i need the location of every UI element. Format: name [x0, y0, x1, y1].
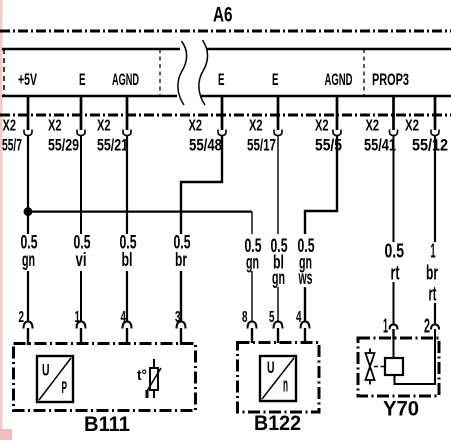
B111 pin socket 3 — [177, 322, 186, 329]
svg-text:55/41: 55/41 — [364, 136, 396, 155]
svg-text:55/21: 55/21 — [97, 136, 128, 155]
wire bl gn: X2 55/17 down to B122 pin 5 — [277, 136, 279, 322]
svg-text:1: 1 — [383, 316, 388, 338]
B122 rpm sensor symbol U/n — [260, 356, 296, 401]
svg-text:X2: X2 — [97, 118, 111, 135]
wire E to X2 — [221, 96, 224, 130]
svg-text:X2: X2 — [405, 118, 419, 135]
svg-text:rt: rt — [429, 284, 437, 306]
svg-text:3: 3 — [175, 309, 181, 326]
wire rt: X2 55/41 down to Y70 pin 1 — [393, 136, 395, 325]
svg-text:+5V: +5V — [18, 70, 37, 89]
Y70 valve symbol — [369, 349, 371, 354]
B122 pin socket 4 — [301, 322, 310, 329]
component B111 box — [14, 344, 196, 411]
svg-text:gn: gn — [272, 268, 285, 289]
connector socket 55/48 — [218, 130, 226, 136]
svg-text:55/48: 55/48 — [189, 136, 222, 155]
break mark right curve — [199, 40, 208, 105]
scan artifact: pink bottom-left patch — [0, 429, 12, 440]
svg-text:br: br — [426, 263, 438, 285]
svg-text:U: U — [42, 361, 50, 380]
Y70 solenoid coil — [385, 358, 403, 375]
svg-text:AGND: AGND — [112, 70, 139, 89]
white mask for wire labels — [16, 234, 40, 271]
connector X2 dash-dot line — [0, 114, 451, 117]
wire gn ws: X2 55/5 step down-left to B122 pin 4 — [305, 136, 337, 322]
connector socket 55/29 — [77, 130, 85, 136]
svg-text:8: 8 — [242, 309, 248, 326]
svg-text:gn: gn — [246, 253, 259, 274]
wire AGND to X2 — [336, 96, 339, 130]
connector socket 55/7 — [24, 130, 32, 136]
wire gn branch down to B122 pin 8 — [251, 212, 253, 321]
svg-text:P: P — [62, 378, 68, 397]
svg-text:5: 5 — [269, 309, 275, 326]
connector band bottom edge — [2, 95, 177, 97]
svg-text:vi: vi — [76, 250, 87, 271]
svg-text:AGND: AGND — [325, 70, 353, 89]
connector band top edge — [2, 48, 180, 50]
B122 pin socket 5 — [274, 322, 283, 329]
svg-text:B111: B111 — [84, 413, 130, 436]
svg-text:rt: rt — [391, 263, 400, 285]
B111 pin socket 1 — [77, 322, 86, 329]
wire bl: X2 55/21 down to B111 pin 4 — [126, 136, 128, 322]
svg-text:1: 1 — [431, 240, 436, 262]
component B122 box — [238, 343, 320, 413]
Y70 internal wire coil to pin2 — [395, 329, 436, 384]
band separator dashed — [363, 49, 365, 95]
Y70 pin socket 2 — [431, 325, 439, 330]
svg-text:gn: gn — [22, 250, 35, 271]
band left dashed border — [3, 49, 5, 96]
connector socket 55/5 — [333, 130, 341, 136]
wire gn: X2 55/7 down to B111 pin 2 — [27, 136, 29, 322]
component Y70 box — [358, 338, 439, 396]
wire branch +5V to B122 pin 8 — [28, 211, 252, 213]
B111 pressure sensor symbol U/P — [37, 356, 73, 402]
svg-text:X2: X2 — [315, 118, 329, 135]
connector socket 55/12 — [431, 130, 439, 136]
svg-text:bl: bl — [122, 250, 133, 271]
svg-text:X2: X2 — [366, 118, 380, 135]
svg-text:X2: X2 — [249, 118, 263, 135]
svg-text:55/12: 55/12 — [412, 136, 448, 155]
svg-text:Y70: Y70 — [383, 398, 419, 421]
wire to X2 55/12 — [434, 96, 437, 130]
svg-text:4: 4 — [296, 309, 302, 326]
wire E to X2 — [277, 96, 280, 130]
Y70 internal wire pin1 to coil — [393, 339, 395, 358]
svg-text:E: E — [79, 70, 86, 89]
svg-text:A6: A6 — [213, 4, 233, 27]
connector socket 55/17 — [274, 130, 282, 136]
svg-text:X2: X2 — [3, 118, 17, 135]
scan artifact: pink left edge — [0, 0, 3, 440]
break mark left curve — [178, 41, 187, 105]
B111 pin socket 4 — [123, 322, 132, 329]
svg-text:U: U — [267, 358, 275, 377]
Y70 pin socket 1 — [390, 325, 398, 330]
svg-text:br: br — [175, 250, 187, 271]
wire vi: X2 55/29 down to B111 pin 1 — [80, 136, 82, 322]
svg-text:0.5: 0.5 — [385, 240, 405, 262]
wire AGND to X2 — [126, 96, 129, 130]
wire br: X2 55/48 step down-left to B111 pin 3 — [181, 136, 222, 322]
wire +5V from band to X2 — [27, 96, 30, 130]
svg-text:E: E — [218, 70, 225, 89]
svg-text:X2: X2 — [189, 118, 203, 135]
B122 pin socket 8 — [248, 322, 257, 329]
svg-text:2: 2 — [19, 309, 25, 326]
connector socket 55/41 — [390, 130, 398, 136]
svg-text:55/29: 55/29 — [48, 136, 79, 155]
wire br rt: X2 55/12 down to Y70 pin 2 — [434, 136, 436, 325]
svg-text:n: n — [283, 374, 288, 396]
svg-text:PROP3: PROP3 — [372, 70, 409, 89]
wire E to X2 — [80, 96, 83, 130]
junction dot on +5V wire — [24, 207, 33, 216]
svg-text:1: 1 — [75, 309, 81, 326]
svg-text:B122: B122 — [254, 412, 301, 435]
svg-text:2: 2 — [424, 316, 430, 338]
connector socket 55/21 — [123, 130, 131, 136]
svg-text:t°: t° — [137, 367, 147, 384]
svg-text:55/17: 55/17 — [247, 136, 276, 155]
Y70 valve-coil link — [374, 366, 385, 368]
svg-text:4: 4 — [121, 309, 127, 326]
svg-text:X2: X2 — [48, 118, 62, 135]
band separator dashed — [159, 49, 161, 95]
B111 temperature sensor (thermistor) — [153, 359, 155, 368]
svg-text:55/7: 55/7 — [2, 136, 22, 155]
wire PROP3 to X2 — [392, 96, 395, 130]
B111 pin socket 2 — [24, 322, 33, 329]
svg-text:ws: ws — [298, 268, 313, 289]
control unit A6 boundary (dash-dot line) — [0, 30, 451, 33]
svg-text:E: E — [272, 70, 279, 89]
